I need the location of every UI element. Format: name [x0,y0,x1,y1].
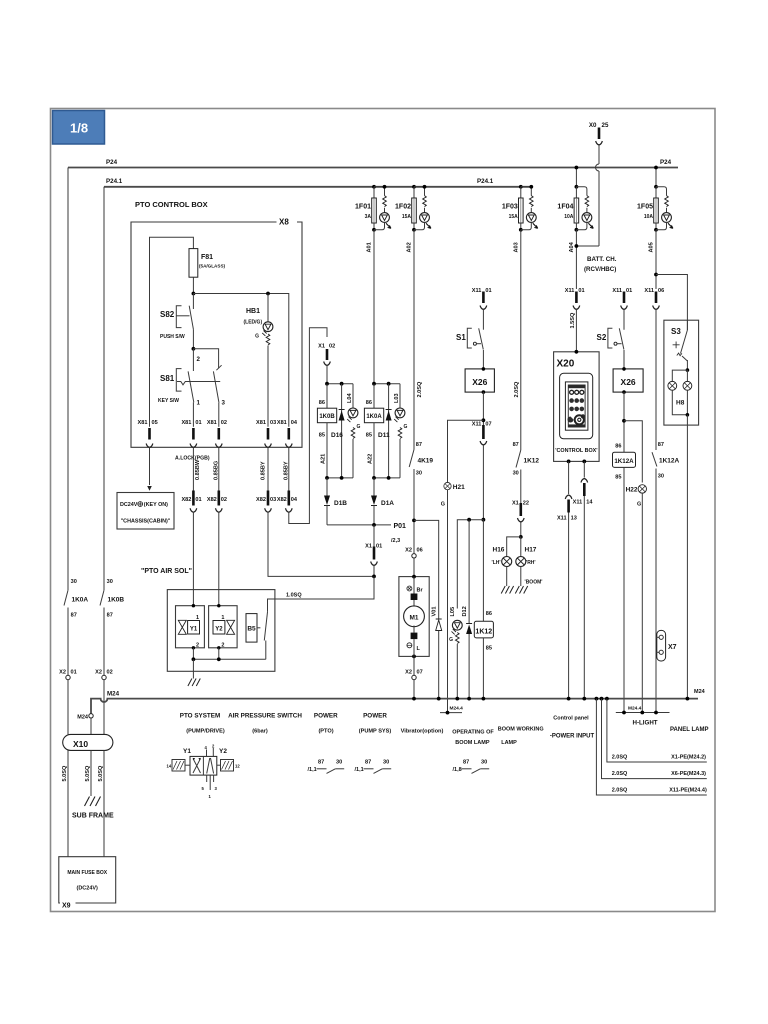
svg-text:X81: X81 [138,420,148,426]
svg-text:85: 85 [366,433,372,439]
diode V01 [432,607,442,699]
svg-text:F81: F81 [201,254,213,261]
svg-text:MAIN FUSE BOX: MAIN FUSE BOX [67,870,107,876]
svg-text:X11: X11 [565,288,575,294]
svg-text:X11-PE(M24.4): X11-PE(M24.4) [669,788,707,794]
svg-text:87: 87 [318,760,324,766]
svg-text:1K0A: 1K0A [366,414,382,420]
svg-text:2.0SQ: 2.0SQ [417,381,423,398]
svg-text:1.5SQ: 1.5SQ [570,312,576,329]
svg-text:1F04: 1F04 [557,204,573,211]
wire P24.1 left drop to 1K0B contact [103,187,105,590]
svg-text:A01: A01 [367,242,373,252]
svg-text:P24: P24 [106,159,118,166]
pressure switch B5 [246,612,268,659]
svg-text:S2: S2 [597,333,607,342]
wire X6-PE(M24.3) [602,699,707,779]
relay coil 1K12 [474,611,493,699]
wire top rail in X8 [150,237,194,427]
svg-text:86: 86 [319,400,325,406]
svg-text:87: 87 [463,760,469,766]
svg-text:X1: X1 [365,544,372,550]
svg-text:X11: X11 [573,500,583,506]
solenoid valve Y1 [176,604,205,650]
connector X1-22 [512,501,529,537]
connector X11-06 [644,288,664,450]
connector X0-25 [576,122,609,246]
svg-text:H8: H8 [676,400,685,407]
ground (solenoid common) [192,659,194,678]
connector X82-04 [277,491,298,513]
svg-text:1K12: 1K12 [524,458,540,465]
svg-text:1F01: 1F01 [355,204,371,211]
svg-text:X11: X11 [557,516,567,522]
svg-text:02: 02 [329,344,335,350]
lamp H8 right [683,381,692,390]
svg-text:(5A/GLASS): (5A/GLASS) [199,264,226,269]
connector X10 [63,734,113,750]
svg-text:P24.1: P24.1 [106,178,123,185]
switch S82 [160,294,201,364]
svg-text:1: 1 [197,400,201,407]
svg-text:M24: M24 [107,691,120,698]
svg-text:01: 01 [195,497,201,503]
svg-text:0.85BG: 0.85BG [213,461,219,480]
svg-text:KEY S/W: KEY S/W [158,398,179,404]
svg-text:S1: S1 [456,333,466,342]
svg-text:07: 07 [485,422,491,428]
LED L05 [449,607,462,699]
connector X81-04 [277,420,298,448]
svg-text:(RCV/HBC): (RCV/HBC) [584,266,616,273]
svg-text:X9: X9 [62,903,71,910]
svg-text:X26: X26 [621,377,636,387]
svg-text:1F05: 1F05 [637,204,653,211]
svg-text:A04: A04 [569,241,575,252]
svg-text:87: 87 [513,442,519,448]
svg-text:'RH': 'RH' [526,560,536,566]
box X8 [131,222,302,447]
svg-text:L05: L05 [450,607,456,617]
svg-text:-POWER INPUT: -POWER INPUT [550,734,595,740]
svg-text:0.85BY: 0.85BY [261,461,267,480]
svg-text:SUB FRAME: SUB FRAME [72,813,114,820]
box X20 control box [554,350,600,463]
svg-text:86: 86 [486,611,492,617]
svg-text:Control panel: Control panel [553,716,589,722]
wire X82-01 to Y1 [192,512,194,606]
svg-text:X1: X1 [512,501,519,507]
svg-text:LAMP: LAMP [501,740,517,746]
connector X11-01 (S2 feed) [612,288,632,330]
fuse 1F01 [372,185,391,232]
svg-text:A22: A22 [368,454,374,464]
wire P24 rail [68,167,678,169]
motor M1 [399,575,429,659]
contact 1K12A [652,442,680,713]
svg-text:3: 3 [222,400,226,407]
svg-text:G: G [637,502,641,508]
svg-text:P24: P24 [660,159,672,166]
contact 1K12 [513,442,540,503]
svg-text:X11: X11 [644,288,654,294]
svg-text:5.0SQ: 5.0SQ [98,765,104,782]
connector box X26 [465,367,494,426]
svg-text:X1-PE(M24.2): X1-PE(M24.2) [671,755,706,761]
svg-text:1K12: 1K12 [475,628,492,635]
svg-text:(6bar): (6bar) [252,729,268,735]
lamp H22 [626,485,647,713]
svg-text:03: 03 [270,420,276,426]
connector X11-01 (S1 feed) [472,288,492,330]
svg-text:86: 86 [615,444,621,450]
svg-text:Vibrator(option): Vibrator(option) [401,729,444,735]
wire P24 left drop to 1K0A contact [67,168,69,591]
svg-text:S81: S81 [160,374,175,383]
svg-text:G: G [441,502,445,508]
lamp H21 [441,482,465,712]
svg-text:01: 01 [195,420,201,426]
relay coil 1K0A [364,382,405,480]
svg-text:X11: X11 [472,422,482,428]
svg-text:10A: 10A [564,214,574,220]
wire A05 branch to S3 [656,275,687,331]
svg-text:/2,3: /2,3 [391,538,400,544]
svg-text:4K19: 4K19 [418,458,434,465]
svg-text:X10: X10 [73,739,88,749]
pneumatic valve symbol (PTO system) [167,744,241,800]
page frame [51,109,716,912]
svg-text:30: 30 [416,471,422,477]
svg-text:2.0SQ: 2.0SQ [514,381,520,398]
svg-text:3A: 3A [365,214,372,220]
svg-text:30: 30 [658,474,664,480]
svg-text:30: 30 [513,471,519,477]
svg-text:07: 07 [417,670,423,676]
svg-text:X2: X2 [405,548,412,554]
svg-text:V01: V01 [432,607,438,617]
connector X1-02 [318,344,335,384]
svg-text:Y2: Y2 [215,627,223,633]
svg-text:X2: X2 [59,670,66,676]
connector X2-06 [405,522,423,577]
svg-text:X82: X82 [256,497,266,503]
contact 1K0B [100,579,124,675]
svg-text:1K0B: 1K0B [108,597,125,604]
svg-text:86: 86 [366,400,372,406]
fuse F81 [189,249,198,278]
svg-text:1K0B: 1K0B [319,414,335,420]
connector X11-14 [573,461,594,698]
svg-text:X11: X11 [472,288,482,294]
box DC24V KEY ON [117,493,174,530]
wire X1-PE(M24.2) [607,699,707,762]
connector X7 [656,630,677,661]
svg-text:2.0SQ: 2.0SQ [612,755,628,761]
wire M24.4 (H-LIGHT) [616,712,670,714]
svg-text:03: 03 [270,497,276,503]
svg-text:X26: X26 [472,377,487,387]
ground [515,586,527,594]
solenoid valve Y2 [209,604,238,650]
svg-text:25: 25 [602,122,609,129]
svg-text:5.0SQ: 5.0SQ [85,765,91,782]
svg-text:2.0SQ: 2.0SQ [612,771,628,777]
switch S81 (key) [158,349,226,427]
wire 0.85BW [192,447,194,490]
svg-text:87: 87 [416,442,422,448]
connector X81-05 [138,420,158,448]
svg-text:P24.1: P24.1 [477,178,494,185]
node (L05/D12 branch) [482,518,486,522]
svg-text:M24.4: M24.4 [450,706,464,712]
svg-text:D1B: D1B [334,500,347,507]
svg-text:X82: X82 [207,497,217,503]
svg-text:PTO SYSTEM: PTO SYSTEM [180,713,220,720]
connector X2-02 [95,670,113,735]
svg-text:1/8: 1/8 [70,121,88,136]
svg-text:X81: X81 [181,420,191,426]
wire M24 bus [91,699,698,714]
diode D12 [462,606,472,698]
contact 1K0A [64,579,88,675]
wire 0.85BY [267,447,269,490]
switch S3 [681,330,688,354]
svg-text:Br: Br [417,588,424,594]
svg-text:X6-PE(M24.3): X6-PE(M24.3) [671,771,706,777]
svg-text:85: 85 [615,475,621,481]
svg-text:04: 04 [291,420,298,426]
svg-text:Y1: Y1 [190,627,198,633]
svg-text:X81: X81 [207,420,217,426]
svg-text:AIR PRESSURE SWITCH: AIR PRESSURE SWITCH [228,713,302,720]
svg-text:X20: X20 [557,359,575,370]
wire 0.85BY [288,447,290,490]
svg-text:P01: P01 [394,523,407,530]
svg-text:87: 87 [658,442,664,448]
wire X11-PE(M24.4) [596,699,706,795]
svg-text:87: 87 [71,613,77,619]
svg-text:(PTO): (PTO) [318,729,333,735]
svg-text:85: 85 [486,646,492,652]
svg-text:10A: 10A [644,214,654,220]
svg-text:X2: X2 [405,670,412,676]
connector X81-02 [207,420,227,448]
svg-text:30: 30 [71,579,77,585]
node after F81 [192,292,196,296]
svg-text:01: 01 [485,288,491,294]
lamp HB1 [244,294,273,427]
svg-text:A21: A21 [321,454,327,464]
svg-text:X7: X7 [668,644,677,651]
wire P01 [327,524,391,526]
connector X2-01 [59,670,77,735]
svg-text:BOOM LAMP: BOOM LAMP [455,740,490,746]
svg-text:BOOM WORKING: BOOM WORKING [498,727,544,733]
svg-text:30: 30 [383,760,389,766]
relay coil 1K0B [317,382,358,480]
svg-text:M1: M1 [409,615,418,622]
svg-text:04: 04 [291,497,298,503]
svg-text:14: 14 [586,500,593,506]
svg-text:01: 01 [626,288,632,294]
connector X81-03 [256,420,276,448]
svg-text:01: 01 [578,288,584,294]
fuse 1F02 [412,185,431,232]
svg-text:X81: X81 [256,420,266,426]
svg-text:0.85BW: 0.85BW [195,459,201,480]
connector X11-07 [472,422,492,520]
svg-text:02: 02 [221,497,227,503]
svg-text:M24: M24 [694,689,706,695]
switch S2 [597,328,625,369]
svg-text:06: 06 [417,548,423,554]
svg-text:'CONTROL BOX': 'CONTROL BOX' [555,448,597,454]
page tab 1/8 [53,111,105,145]
svg-text:Y2: Y2 [219,748,227,755]
svg-text:12: 12 [235,764,240,769]
svg-text:/1,1: /1,1 [355,767,364,773]
connector box X26 [613,367,643,452]
wire 1.0SQ from B5 to node P [268,576,375,612]
svg-text:15A: 15A [509,214,519,220]
svg-text:30: 30 [107,579,113,585]
node P (X1-01/X82-03/B5 junction) [372,575,376,579]
wire rail to HB1/X81-04 [193,294,288,427]
connector X82-03 [256,491,276,513]
svg-text:G: G [449,637,453,643]
contact ref POWER (PUMP SYS) [355,760,392,774]
svg-text:Y1: Y1 [183,748,191,755]
svg-text:X2: X2 [95,670,102,676]
svg-text:A05: A05 [649,242,655,252]
fuse 1F03 [519,185,538,232]
node (boom lamps) [519,535,523,539]
contact ref BOOM LAMP [453,760,490,774]
svg-text:06: 06 [658,288,664,294]
svg-text:1K0A: 1K0A [72,597,89,604]
fuse 1F04 [575,168,577,187]
svg-text:X0: X0 [589,122,597,129]
svg-text:2: 2 [221,643,224,649]
svg-text:15A: 15A [402,214,412,220]
svg-text:OPERATING OF: OPERATING OF [452,730,494,736]
svg-text:X82: X82 [181,497,191,503]
diode D1A [373,478,375,496]
svg-text:1.0SQ: 1.0SQ [286,592,302,598]
svg-text:85: 85 [319,433,325,439]
svg-text:1F03: 1F03 [502,204,518,211]
svg-text:(PUMP SYS): (PUMP SYS) [359,729,392,735]
keypad face [568,385,585,427]
svg-text:POWER: POWER [314,713,338,720]
svg-text:"PTO AIR SOL": "PTO AIR SOL" [141,568,192,575]
connector X1-01 [365,525,382,577]
bus taps to PE lines [567,697,571,701]
svg-text:X81: X81 [277,420,287,426]
contact 4K19 [409,442,433,520]
wire X82-04 up to X1-02 [289,328,327,524]
svg-text:(PUMP/DRIVE): (PUMP/DRIVE) [186,729,225,735]
wire P24.1 rail [104,186,532,188]
svg-text:/1,8: /1,8 [453,767,462,773]
connector X81-01 [181,420,201,448]
svg-text:A02: A02 [407,242,413,252]
connector M24 [77,714,93,735]
wire X82-03 to node P [268,512,374,577]
svg-text:G: G [404,424,408,430]
svg-text:S82: S82 [160,310,175,319]
svg-text:D16: D16 [331,432,343,439]
svg-text:H17: H17 [525,547,537,554]
svg-text:D11: D11 [378,432,390,439]
svg-text:/1,1: /1,1 [308,767,317,773]
svg-text:14: 14 [167,764,172,769]
node (H22 branch) [622,419,626,423]
svg-text:0.85BY: 0.85BY [283,461,289,480]
svg-text:X8: X8 [279,218,289,227]
svg-text:X11: X11 [612,288,622,294]
ground SUB FRAME [85,797,101,807]
svg-text:2.0SQ: 2.0SQ [612,788,628,794]
connector X11-13 [557,461,577,698]
svg-text:PUSH S/W: PUSH S/W [160,334,185,340]
svg-text:L03: L03 [394,393,400,403]
connector X82-02 [207,491,227,513]
svg-text:22: 22 [523,501,529,507]
svg-text:B5: B5 [247,626,256,633]
svg-text:87: 87 [365,760,371,766]
svg-text:S3: S3 [671,327,681,336]
wire 5.0SQ x3 [67,750,69,856]
wire 0.85BG [218,447,220,490]
svg-text:13: 13 [571,516,577,522]
svg-text:A.LOCK(PGB): A.LOCK(PGB) [175,456,210,462]
svg-text:A03: A03 [513,242,519,252]
svg-text:G: G [357,424,361,430]
svg-text:POWER: POWER [363,713,387,720]
svg-text:05: 05 [152,420,158,426]
wire solenoid common rail [193,648,265,660]
svg-text:PTO CONTROL BOX: PTO CONTROL BOX [135,200,208,209]
svg-text:HB1: HB1 [246,308,260,315]
wire to DC24V box with arrow [149,447,151,485]
svg-text:(KEY ON): (KEY ON) [144,502,168,508]
svg-text:D12: D12 [462,606,468,616]
svg-text:(LED/G): (LED/G) [244,320,263,326]
svg-text:02: 02 [107,670,113,676]
svg-text:X82: X82 [277,497,287,503]
svg-text:87: 87 [107,613,113,619]
switch S1 [456,328,483,369]
svg-text:PANEL LAMP: PANEL LAMP [670,727,708,733]
svg-text:X1: X1 [318,344,325,350]
svg-text:G: G [255,334,259,340]
wire M24.4 stub (H21 G) [440,712,462,714]
svg-text:5.0SQ: 5.0SQ [62,765,68,782]
svg-text:1K12A: 1K12A [614,458,634,465]
connector X11-01 (X20 feed) [565,288,585,352]
svg-text:D1A: D1A [381,500,394,507]
svg-text:01: 01 [71,670,77,676]
svg-text:M24.4: M24.4 [628,706,642,712]
svg-text:H16: H16 [493,547,505,554]
svg-text:DC24V: DC24V [120,502,138,508]
connector X2-07 [405,656,423,698]
svg-text:BATT. CH.: BATT. CH. [587,256,617,263]
svg-text:'BOOM': 'BOOM' [525,580,543,586]
svg-text:2: 2 [197,356,201,363]
